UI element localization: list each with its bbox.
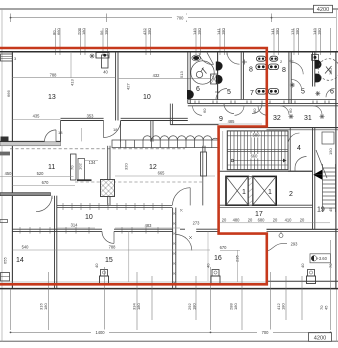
svg-text:700: 700 <box>262 330 270 335</box>
hatched wall left corridor <box>0 142 61 146</box>
WC D right a <box>315 60 322 69</box>
page border top <box>0 8 338 10</box>
sink cross a <box>242 59 294 65</box>
svg-text:134: 134 <box>89 160 97 165</box>
svg-text:432: 432 <box>153 73 161 78</box>
door arc room5 <box>216 89 227 100</box>
door arc room14 <box>36 196 52 212</box>
svg-text:353: 353 <box>87 113 95 118</box>
svg-text:10: 10 <box>85 214 93 221</box>
svg-text:180: 180 <box>281 303 286 310</box>
door arc corridor11 <box>45 130 57 142</box>
dashed service line <box>10 148 185 150</box>
svg-text:670: 670 <box>42 180 50 185</box>
bottom wall light upper <box>0 281 267 283</box>
left outer wall <box>11 52 13 289</box>
bottom rotated labels <box>39 303 329 310</box>
door corridor arc <box>104 121 121 138</box>
door arc room4 <box>295 157 307 169</box>
ladder diagonal <box>316 150 327 178</box>
door arcs on corridor wall <box>224 104 234 114</box>
door arc corridor10 <box>173 188 191 206</box>
pillar sink combo 3 <box>300 263 316 284</box>
svg-text:20: 20 <box>222 218 227 223</box>
svg-text:31: 31 <box>304 115 312 122</box>
svg-text:40: 40 <box>94 263 99 268</box>
sink stars 32 31 <box>289 114 325 119</box>
svg-text:1: 1 <box>268 189 272 196</box>
svg-text:20: 20 <box>273 218 278 223</box>
svg-text:8: 8 <box>282 67 286 74</box>
top dimension line <box>11 14 337 23</box>
dim 665 <box>115 175 215 177</box>
corridor 9 bottom wall <box>170 124 218 126</box>
dashed beam line <box>75 181 202 183</box>
svg-text:1: 1 <box>242 189 246 196</box>
svg-text:427: 427 <box>126 83 131 90</box>
wall 14|15 <box>54 196 56 289</box>
left glyph row151 <box>0 152 10 156</box>
wall 5|8 <box>240 52 242 100</box>
dim 314 <box>57 227 95 229</box>
sink star a <box>290 83 295 88</box>
dim 570 <box>220 249 240 251</box>
svg-text:20: 20 <box>248 218 253 223</box>
partition with ticks <box>57 204 172 206</box>
svg-text:435: 435 <box>33 113 41 118</box>
svg-text:666: 666 <box>6 90 11 97</box>
room 13 duct <box>96 53 109 59</box>
wall under stairs <box>219 170 313 172</box>
svg-text:273: 273 <box>193 221 201 226</box>
door arc room4 top <box>288 133 300 145</box>
svg-text:320: 320 <box>124 163 129 170</box>
hatched pillar <box>101 180 115 197</box>
svg-text:540: 540 <box>22 245 30 250</box>
room13 bottom wall <box>61 117 104 119</box>
WC D room5 b <box>216 75 223 84</box>
svg-text:485: 485 <box>228 119 236 124</box>
svg-text:32: 32 <box>273 115 281 122</box>
svg-text:4200: 4200 <box>317 7 329 13</box>
page border left <box>1 9 3 341</box>
svg-text:410: 410 <box>285 218 293 223</box>
door arc room6' <box>326 89 335 98</box>
top extension ticks <box>56 28 331 55</box>
left edge glyphs <box>1 54 13 61</box>
door arcs 32 31 <box>280 106 289 115</box>
dim 485 <box>190 123 262 125</box>
bottom dimension line <box>11 331 331 333</box>
dim 540 788 <box>12 249 48 251</box>
svg-text:15: 15 <box>105 257 113 264</box>
svg-text:665: 665 <box>158 171 166 176</box>
svg-text:700: 700 <box>177 15 185 20</box>
svg-text:655: 655 <box>3 257 8 264</box>
door arc room5' a <box>291 62 303 74</box>
door arc room5 top <box>226 52 228 55</box>
wall rooms right strip <box>312 128 314 230</box>
wall x150 <box>150 121 152 142</box>
sink star b <box>315 91 320 96</box>
tick x129 <box>128 231 130 282</box>
stair walk line <box>231 159 234 162</box>
dim 670 <box>12 184 75 186</box>
svg-text:4: 4 <box>297 145 301 152</box>
thick wall left room14 top <box>0 193 51 196</box>
elevator 2 <box>253 176 277 205</box>
svg-text:513: 513 <box>179 71 184 78</box>
svg-text:18: 18 <box>58 130 63 135</box>
room 10 dim 432 <box>118 77 210 79</box>
svg-text:660: 660 <box>251 154 259 159</box>
svg-text:40: 40 <box>300 263 305 268</box>
right plan wall <box>335 52 337 289</box>
shaft small <box>211 74 218 84</box>
wall 5'|6' <box>312 52 314 87</box>
svg-text:293: 293 <box>291 241 299 246</box>
wall below red step <box>219 127 338 129</box>
corridor 9 left wall <box>169 104 171 125</box>
svg-text:480: 480 <box>233 218 241 223</box>
svg-text:413: 413 <box>70 79 75 86</box>
radiator band <box>112 136 219 148</box>
svg-text:788: 788 <box>50 72 58 77</box>
svg-text:45: 45 <box>328 207 333 212</box>
room 13 dim 788 <box>12 77 115 79</box>
bathroom inner wall line <box>188 99 266 101</box>
bottom wall line right <box>267 280 338 282</box>
top rotated tick labels <box>52 28 322 35</box>
WC D room5 a <box>216 62 223 71</box>
svg-text:20: 20 <box>300 218 305 223</box>
elevator 1 <box>226 176 248 205</box>
elevator separator <box>248 176 252 205</box>
room 13 vert line <box>70 52 72 78</box>
dim 450 520 <box>0 176 74 178</box>
svg-text:+3.60: +3.60 <box>317 256 328 261</box>
pillar sink combo 2 <box>206 263 221 284</box>
svg-text:14: 14 <box>16 257 24 264</box>
svg-text:680: 680 <box>258 218 266 223</box>
svg-text:4200: 4200 <box>314 335 326 341</box>
svg-text:180: 180 <box>43 303 48 310</box>
page border bottom <box>0 340 338 342</box>
room 11 duct <box>71 154 77 180</box>
svg-text:180: 180 <box>328 68 333 75</box>
svg-text:8: 8 <box>249 67 253 74</box>
svg-text:150: 150 <box>328 148 333 155</box>
svg-text:180: 180 <box>192 303 197 310</box>
4200 box top <box>314 5 333 12</box>
wall x120 <box>120 121 122 142</box>
svg-text:2: 2 <box>289 191 293 198</box>
wall x60 <box>60 121 62 142</box>
service ladder <box>323 164 336 212</box>
svg-text:40: 40 <box>206 263 211 268</box>
svg-text:10: 10 <box>143 94 151 101</box>
svg-text:102: 102 <box>78 163 83 170</box>
svg-text:60: 60 <box>252 108 257 113</box>
wall 6|5 <box>217 52 219 100</box>
svg-text:483: 483 <box>145 223 153 228</box>
dim 483 <box>115 227 180 229</box>
wall 4|2 <box>288 170 313 172</box>
section marker triangles <box>313 170 322 175</box>
wall 15|16 hatched <box>172 208 174 289</box>
svg-text:1400: 1400 <box>95 330 105 335</box>
wheelchair squiggle <box>196 68 206 78</box>
svg-text:9: 9 <box>219 116 223 123</box>
top dim text 700 <box>172 15 188 21</box>
door leaf room6 <box>207 52 214 65</box>
wall right of red <box>288 52 290 104</box>
WC D right b <box>315 74 322 83</box>
svg-text:314: 314 <box>71 223 79 228</box>
bathroom bottom wall <box>188 103 338 105</box>
small rect room19 top <box>322 132 334 144</box>
svg-text:450: 450 <box>5 171 13 176</box>
wall room13/10 divider <box>115 52 117 121</box>
door arc room16 left <box>176 235 192 251</box>
stair left dim <box>222 131 224 170</box>
corridor 9 thresholds <box>195 101 329 104</box>
svg-text:70: 70 <box>328 263 333 268</box>
bathroom block left wall <box>187 52 189 104</box>
main top wall <box>0 51 338 53</box>
pillar sink combo 1 <box>94 263 109 284</box>
door arc room5' b <box>291 79 301 89</box>
sink oval room6 <box>193 56 199 60</box>
svg-text:6: 6 <box>196 86 200 93</box>
svg-text:45: 45 <box>324 305 329 310</box>
urinal row8 upper left <box>256 56 279 69</box>
cistern right <box>312 55 319 61</box>
turning circle room6' dashed <box>318 59 338 81</box>
svg-text:670: 670 <box>220 245 228 250</box>
svg-text:18: 18 <box>113 127 118 132</box>
svg-text:60: 60 <box>202 108 207 113</box>
main bottom wall <box>0 288 338 290</box>
svg-text:40: 40 <box>103 70 108 75</box>
svg-text:16: 16 <box>214 255 222 262</box>
4200 box bottom <box>309 333 332 342</box>
corridor 17 dims <box>220 222 330 224</box>
svg-text:788: 788 <box>109 245 117 250</box>
svg-text:580: 580 <box>253 133 261 138</box>
red outline <box>0 48 267 284</box>
urinal row7 <box>256 89 279 95</box>
turning circle room6 <box>191 61 214 84</box>
svg-text:7: 7 <box>250 90 254 97</box>
room 16 label <box>207 232 209 282</box>
svg-text:11: 11 <box>48 164 55 171</box>
svg-text:70: 70 <box>70 165 75 170</box>
bottom extension ticks <box>11 240 331 330</box>
svg-text:19: 19 <box>317 207 325 214</box>
drain symbol and 293 <box>279 234 283 238</box>
wall below 17 <box>267 228 338 230</box>
room 13 duct walls <box>95 52 97 58</box>
+3.60 box <box>310 254 331 263</box>
svg-text:520: 520 <box>37 171 45 176</box>
wall corridor10 bottom <box>12 228 102 230</box>
stairs <box>227 131 288 170</box>
svg-text:180: 180 <box>136 303 141 310</box>
svg-text:13: 13 <box>48 94 56 101</box>
svg-text:235: 235 <box>235 255 240 262</box>
corridor 17 wall <box>219 204 313 206</box>
corridor 9 door arcs <box>193 106 203 116</box>
svg-text:5: 5 <box>227 89 231 96</box>
svg-text:180: 180 <box>233 303 238 310</box>
WC D room6 <box>187 90 194 99</box>
page border right <box>335 9 337 341</box>
sink cross room5 <box>215 90 220 95</box>
door arc room15 <box>102 231 114 243</box>
wall 11|12 <box>107 146 109 206</box>
svg-text:12: 12 <box>149 164 157 171</box>
room 12 right duct <box>201 152 207 176</box>
